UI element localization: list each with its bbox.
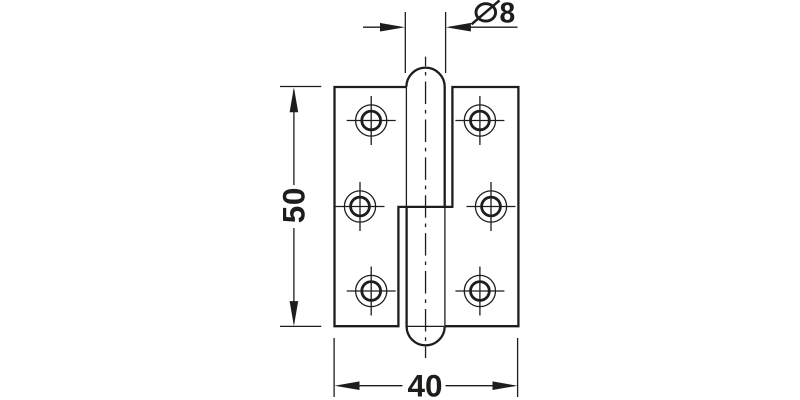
knuckle step	[397, 206, 453, 208]
dimension 40 arrow right	[493, 381, 518, 390]
screw hole H1	[347, 96, 396, 145]
pin knuckle lower right edge	[444, 207, 446, 327]
leaf bottom edge across knuckle	[408, 325, 445, 327]
dimension D8 arrow left	[363, 23, 405, 32]
dimension 40 arrow left	[335, 381, 360, 390]
screw hole H6	[455, 267, 504, 316]
dimension 40 line	[338, 385, 514, 387]
dimension 50 arrow up	[290, 87, 299, 112]
dimension 50 extension tick bottom	[280, 325, 321, 327]
pin centerline	[425, 57, 427, 358]
pin knuckle lower	[407, 207, 445, 346]
pin knuckle upper	[406, 68, 444, 207]
screw hole H5	[467, 182, 516, 231]
svg-text:40: 40	[408, 367, 443, 400]
svg-text:50: 50	[276, 187, 312, 223]
dimension D8 arrow right	[446, 23, 518, 32]
left leaf	[335, 87, 407, 326]
dimension D8 extension line left	[404, 12, 406, 73]
screw hole H2	[336, 182, 385, 231]
dimension 40 extension line right	[517, 338, 519, 397]
svg-text:8: 8	[500, 0, 516, 30]
screw hole H3	[347, 267, 396, 316]
dimension 50 extension tick top	[280, 86, 321, 88]
dimension D8 label	[472, 0, 516, 30]
pin knuckle upper left edge	[405, 87, 407, 207]
dimension D8 extension line right	[445, 12, 447, 73]
right leaf	[446, 87, 519, 326]
dimension 50 line	[293, 90, 295, 323]
dimension 50 arrow down	[290, 301, 299, 326]
screw hole H4	[455, 96, 504, 145]
dimension 40 extension line left	[333, 338, 335, 397]
